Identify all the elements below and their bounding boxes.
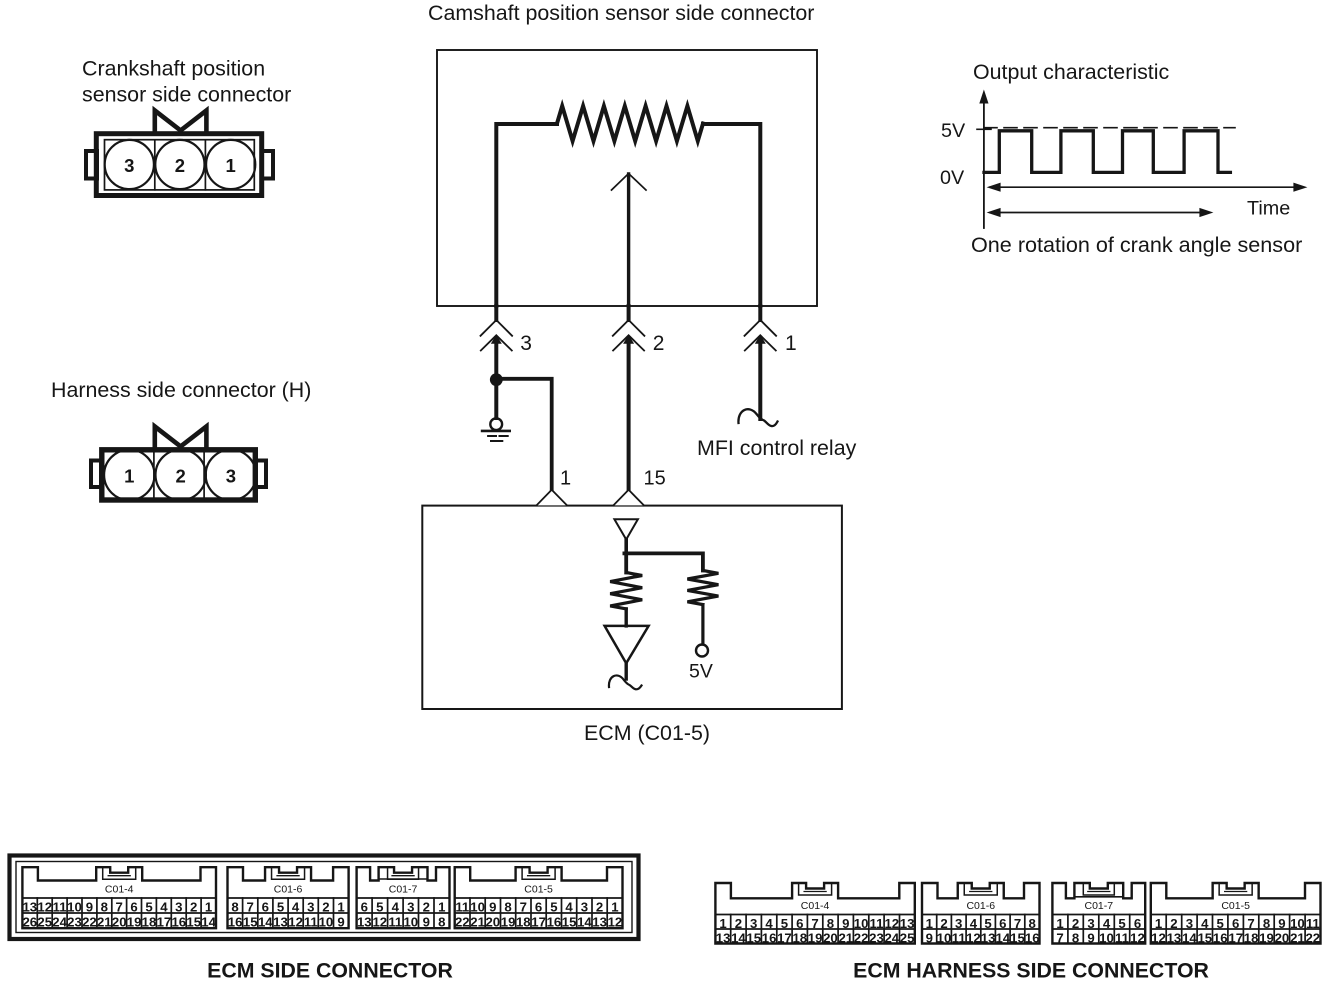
resistor: ECM series resistor	[610, 573, 642, 609]
svg-text:0V: 0V	[940, 167, 965, 189]
svg-text:One rotation of crank angle se: One rotation of crank angle sensor	[971, 232, 1302, 257]
label: Output characteristic	[973, 60, 1169, 84]
svg-text:Output characteristic: Output characteristic	[973, 60, 1169, 84]
svg-text:sensor side connector: sensor side connector	[82, 83, 291, 107]
svg-text:16: 16	[228, 914, 243, 929]
svg-text:1: 1	[226, 155, 236, 176]
svg-text:C01-6: C01-6	[274, 884, 303, 896]
pin cavity circles (harness connector)	[104, 450, 256, 500]
svg-text:25: 25	[900, 930, 915, 945]
svg-text:21: 21	[1290, 930, 1305, 945]
wire: sensor internal right leg	[703, 124, 760, 306]
label: ECM (C01-5)	[584, 721, 710, 745]
pin cavity circles (crankshaft connector)	[105, 140, 256, 189]
svg-text:16: 16	[762, 930, 777, 945]
svg-text:7: 7	[1014, 916, 1021, 931]
svg-text:13: 13	[22, 899, 37, 914]
svg-text:4: 4	[1103, 916, 1111, 931]
svg-text:3: 3	[1186, 916, 1193, 931]
pin 2 label (H)	[176, 466, 186, 487]
svg-text:19: 19	[501, 914, 516, 929]
svg-text:C01-7: C01-7	[1084, 900, 1113, 912]
svg-text:Crankshaft position: Crankshaft position	[82, 57, 265, 81]
svg-text:22: 22	[1305, 930, 1320, 945]
svg-text:9: 9	[423, 914, 430, 929]
wire: ECM internal branch to pull-up	[624, 553, 703, 570]
svg-text:ECM HARNESS SIDE CONNECTOR: ECM HARNESS SIDE CONNECTOR	[853, 959, 1209, 983]
svg-text:5: 5	[1118, 916, 1125, 931]
svg-text:11: 11	[870, 916, 884, 931]
svg-text:4: 4	[160, 899, 168, 914]
svg-text:5: 5	[277, 899, 284, 914]
svg-text:19: 19	[808, 930, 823, 945]
svg-text:2: 2	[1072, 916, 1079, 931]
label: Crankshaft position sensor side connector	[82, 57, 291, 107]
svg-text:3: 3	[955, 916, 962, 931]
svg-text:19: 19	[1259, 930, 1274, 945]
svg-text:9: 9	[1278, 916, 1285, 931]
svg-text:6: 6	[535, 899, 542, 914]
svg-text:22: 22	[854, 930, 869, 945]
svg-text:11: 11	[1306, 916, 1320, 931]
svg-text:13: 13	[981, 930, 996, 945]
svg-text:9: 9	[1087, 930, 1094, 945]
connector symbol pin 2	[613, 320, 645, 336]
svg-text:1: 1	[785, 332, 797, 355]
svg-text:13: 13	[900, 916, 915, 931]
svg-text:8: 8	[231, 899, 238, 914]
wire: sensor internal left leg	[496, 124, 557, 306]
svg-text:7: 7	[520, 899, 527, 914]
label: Camshaft position sensor side connector	[428, 1, 814, 25]
svg-text:11: 11	[1115, 930, 1129, 945]
svg-text:2: 2	[322, 899, 329, 914]
svg-text:15: 15	[562, 914, 577, 929]
resistor: sensor internal winding	[557, 106, 703, 141]
continuation squiggle (ECM internal)	[609, 675, 642, 689]
connector block C01-4 (harness side)	[715, 883, 914, 944]
svg-text:3: 3	[581, 899, 588, 914]
svg-text:2: 2	[1170, 916, 1177, 931]
svg-text:7: 7	[1056, 930, 1063, 945]
wire: pin 2 lead from sensor box	[627, 306, 631, 320]
tick: 5V level	[977, 128, 991, 130]
svg-text:8: 8	[827, 916, 834, 931]
connector block C01-6 (harness side)	[922, 883, 1040, 944]
svg-text:6: 6	[1232, 916, 1239, 931]
svg-text:13: 13	[716, 930, 731, 945]
svg-text:6: 6	[999, 916, 1006, 931]
svg-text:3: 3	[407, 899, 414, 914]
svg-text:12: 12	[966, 930, 981, 945]
svg-text:16: 16	[547, 914, 562, 929]
svg-text:18: 18	[142, 914, 157, 929]
svg-text:12: 12	[1130, 930, 1145, 945]
svg-text:22: 22	[82, 914, 97, 929]
ECM (C01-5) box	[422, 506, 842, 709]
connector block C01-4 (ECM side)	[22, 867, 216, 928]
svg-text:10: 10	[1290, 916, 1305, 931]
svg-text:7: 7	[116, 899, 123, 914]
label: ECM pin 15	[644, 468, 666, 490]
svg-text:17: 17	[1228, 930, 1243, 945]
svg-text:20: 20	[485, 914, 500, 929]
svg-text:12: 12	[608, 914, 623, 929]
pin 3 label	[124, 155, 134, 176]
svg-text:21: 21	[97, 914, 112, 929]
svg-text:17: 17	[157, 914, 172, 929]
svg-text:8: 8	[1263, 916, 1270, 931]
svg-text:12: 12	[372, 914, 387, 929]
svg-text:19: 19	[127, 914, 142, 929]
svg-text:17: 17	[531, 914, 546, 929]
connector block C01-5 (harness side)	[1151, 883, 1321, 944]
dashed 5V reference line	[984, 127, 1235, 129]
svg-text:18: 18	[1244, 930, 1259, 945]
svg-text:1: 1	[337, 899, 344, 914]
svg-text:4: 4	[1201, 916, 1209, 931]
svg-text:10: 10	[403, 914, 418, 929]
junction node (sensor ground / ECM pin 1)	[490, 373, 503, 386]
svg-text:11: 11	[952, 930, 966, 945]
pin 1 label (H)	[124, 466, 134, 487]
svg-text:26: 26	[22, 914, 37, 929]
svg-text:2: 2	[175, 155, 185, 176]
svg-text:3: 3	[750, 916, 757, 931]
svg-text:15: 15	[644, 468, 666, 490]
svg-text:9: 9	[489, 899, 496, 914]
label: One rotation of crank angle sensor	[971, 232, 1302, 257]
wire: pin 3 lead from sensor box	[494, 306, 498, 320]
wire: pin 2 lead to ECM pin 15	[627, 338, 631, 490]
svg-text:8: 8	[504, 899, 511, 914]
svg-text:1: 1	[205, 899, 212, 914]
svg-text:3: 3	[1087, 916, 1094, 931]
wire: into lower resistor	[624, 553, 628, 572]
svg-text:11: 11	[455, 899, 469, 914]
label: 5V (axis)	[941, 120, 966, 142]
arrow: one rotation span	[990, 212, 1209, 214]
svg-text:21: 21	[470, 914, 485, 929]
svg-text:3: 3	[520, 332, 532, 355]
svg-text:10: 10	[937, 930, 952, 945]
ECM side connector outer frame	[10, 856, 639, 940]
svg-text:21: 21	[838, 930, 853, 945]
label: MFI control relay	[697, 436, 857, 460]
svg-text:C01-4: C01-4	[801, 900, 830, 912]
svg-text:5V: 5V	[689, 661, 713, 683]
svg-text:1: 1	[926, 916, 933, 931]
label: ECM HARNESS SIDE CONNECTOR	[853, 959, 1209, 983]
svg-text:14: 14	[1182, 930, 1197, 945]
svg-text:16: 16	[1213, 930, 1228, 945]
svg-text:2: 2	[423, 899, 430, 914]
svg-text:C01-6: C01-6	[966, 900, 995, 912]
buffer triangle inside ECM	[614, 519, 638, 539]
connector block C01-7 (ECM side)	[379, 878, 427, 880]
svg-text:6: 6	[361, 899, 368, 914]
svg-text:6: 6	[130, 899, 137, 914]
connector block C01-7 (harness side)	[1075, 896, 1123, 898]
svg-text:4: 4	[565, 899, 573, 914]
svg-text:MFI control relay: MFI control relay	[697, 436, 857, 460]
connector symbol pin 3	[481, 320, 513, 336]
connector block C01-5 (ECM side)	[455, 867, 623, 928]
svg-text:3: 3	[307, 899, 314, 914]
svg-text:3: 3	[175, 899, 182, 914]
svg-text:5: 5	[1217, 916, 1224, 931]
svg-text:9: 9	[86, 899, 93, 914]
comparator triangle inside ECM	[605, 626, 649, 663]
wire: ECM internal node	[624, 540, 628, 554]
svg-text:6: 6	[262, 899, 269, 914]
svg-text:15: 15	[746, 930, 761, 945]
svg-text:13: 13	[273, 914, 288, 929]
svg-text:22: 22	[455, 914, 470, 929]
svg-text:2: 2	[735, 916, 742, 931]
svg-text:8: 8	[1072, 930, 1079, 945]
svg-text:2: 2	[176, 466, 186, 487]
wire: pull-up to 5V terminal	[701, 605, 704, 644]
svg-text:12: 12	[37, 899, 52, 914]
svg-text:17: 17	[777, 930, 792, 945]
svg-text:6: 6	[796, 916, 803, 931]
svg-text:24: 24	[884, 930, 899, 945]
svg-text:5: 5	[145, 899, 152, 914]
ECM pin 15 entrance triangle	[613, 490, 644, 506]
svg-text:5: 5	[376, 899, 383, 914]
svg-text:12: 12	[884, 916, 899, 931]
svg-text:2: 2	[596, 899, 603, 914]
svg-text:11: 11	[304, 914, 318, 929]
svg-text:11: 11	[388, 914, 402, 929]
wire: resistor to comparator	[625, 609, 628, 626]
svg-text:14: 14	[731, 930, 746, 945]
pin 1 label	[226, 155, 236, 176]
svg-text:1: 1	[719, 916, 726, 931]
svg-text:25: 25	[37, 914, 52, 929]
connector: harness side (H), housing	[91, 427, 266, 501]
svg-text:1: 1	[560, 468, 571, 490]
label: 5V	[689, 661, 713, 683]
pin 3 label (H)	[226, 466, 236, 487]
connector block C01-6 (ECM side)	[228, 867, 349, 928]
svg-text:4: 4	[292, 899, 300, 914]
svg-text:16: 16	[1025, 930, 1040, 945]
svg-text:2: 2	[653, 332, 665, 355]
svg-text:ECM SIDE CONNECTOR: ECM SIDE CONNECTOR	[207, 959, 453, 983]
svg-text:5: 5	[550, 899, 557, 914]
waveform: sensor output square wave	[984, 131, 1230, 173]
ECM pin 1 entrance triangle	[537, 490, 568, 506]
connector: crankshaft position sensor side, housing	[86, 111, 273, 196]
svg-text:10: 10	[67, 899, 82, 914]
svg-text:4: 4	[970, 916, 978, 931]
axis: voltage (vertical)	[983, 102, 985, 228]
svg-text:23: 23	[67, 914, 82, 929]
svg-text:14: 14	[258, 914, 273, 929]
svg-text:15: 15	[243, 914, 258, 929]
label: ECM SIDE CONNECTOR	[207, 959, 453, 983]
svg-text:1: 1	[1056, 916, 1063, 931]
ground symbol	[482, 418, 510, 441]
svg-text:C01-5: C01-5	[1221, 900, 1250, 912]
svg-text:Time: Time	[1247, 198, 1290, 220]
camshaft position sensor box	[437, 50, 817, 306]
svg-text:Harness side connector (H): Harness side connector (H)	[51, 378, 311, 402]
svg-text:12: 12	[1151, 930, 1166, 945]
svg-text:20: 20	[1275, 930, 1290, 945]
svg-text:14: 14	[201, 914, 216, 929]
label: ECM pin 1	[560, 468, 571, 490]
svg-text:C01-4: C01-4	[105, 884, 134, 896]
svg-text:14: 14	[577, 914, 592, 929]
label: Time	[1247, 198, 1290, 220]
svg-text:4: 4	[765, 916, 773, 931]
svg-text:10: 10	[1099, 930, 1114, 945]
wire: pin 1 lead to MFI control relay	[758, 338, 762, 419]
svg-text:20: 20	[112, 914, 127, 929]
svg-text:8: 8	[101, 899, 108, 914]
wire: pin 1 lead from sensor box	[758, 306, 762, 320]
svg-text:23: 23	[869, 930, 884, 945]
svg-text:5: 5	[984, 916, 991, 931]
label: 0V (axis)	[940, 167, 965, 189]
svg-text:13: 13	[592, 914, 607, 929]
svg-text:6: 6	[1134, 916, 1141, 931]
svg-text:15: 15	[1197, 930, 1212, 945]
svg-text:2: 2	[940, 916, 947, 931]
svg-text:Camshaft position sensor side: Camshaft position sensor side connector	[428, 1, 814, 25]
svg-text:4: 4	[392, 899, 400, 914]
svg-text:24: 24	[52, 914, 67, 929]
svg-text:14: 14	[995, 930, 1010, 945]
svg-text:9: 9	[842, 916, 849, 931]
svg-text:5V: 5V	[941, 120, 966, 142]
svg-text:C01-7: C01-7	[389, 884, 418, 896]
continuation squiggle to MFI relay	[738, 409, 777, 426]
svg-text:1: 1	[438, 899, 445, 914]
svg-text:10: 10	[470, 899, 485, 914]
wire: branch to ECM pin 1	[494, 379, 551, 490]
5V supply terminal circle	[696, 645, 708, 657]
wire: comparator output stub	[625, 663, 628, 679]
svg-text:13: 13	[357, 914, 372, 929]
svg-text:9: 9	[337, 914, 344, 929]
svg-text:7: 7	[811, 916, 818, 931]
svg-text:18: 18	[516, 914, 531, 929]
svg-text:8: 8	[1029, 916, 1036, 931]
svg-text:20: 20	[823, 930, 838, 945]
svg-text:8: 8	[438, 914, 445, 929]
pin 2 label	[175, 155, 185, 176]
svg-text:18: 18	[792, 930, 807, 945]
svg-text:7: 7	[247, 899, 254, 914]
connector symbol pin 1	[745, 320, 777, 336]
svg-text:1: 1	[611, 899, 618, 914]
svg-text:11: 11	[53, 899, 67, 914]
svg-text:1: 1	[1155, 916, 1162, 931]
svg-text:1: 1	[124, 466, 134, 487]
svg-text:15: 15	[186, 914, 201, 929]
resistor: ECM pull-up resistor	[687, 571, 718, 605]
svg-text:3: 3	[124, 155, 134, 176]
svg-text:15: 15	[1010, 930, 1025, 945]
svg-text:ECM (C01-5): ECM (C01-5)	[584, 721, 710, 745]
svg-text:12: 12	[288, 914, 303, 929]
svg-text:3: 3	[226, 466, 236, 487]
axis: time arrow (double headed)	[990, 186, 1303, 188]
svg-text:10: 10	[319, 914, 334, 929]
wire: sensor pickup arrow (pin 2)	[627, 174, 630, 306]
svg-text:13: 13	[1167, 930, 1182, 945]
svg-text:C01-5: C01-5	[524, 884, 553, 896]
wire: pin 3 lead to ground node	[494, 338, 498, 418]
svg-text:5: 5	[781, 916, 788, 931]
svg-text:9: 9	[926, 930, 933, 945]
svg-text:10: 10	[854, 916, 869, 931]
svg-text:2: 2	[190, 899, 197, 914]
svg-text:16: 16	[171, 914, 186, 929]
label: Harness side connector (H)	[51, 378, 311, 402]
svg-text:7: 7	[1247, 916, 1254, 931]
